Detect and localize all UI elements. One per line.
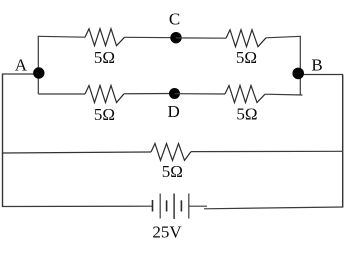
wire: A to resistor R3 bbox=[38, 93, 85, 95]
resistor R4 5ohm (middle right) bbox=[225, 86, 265, 103]
svg-text:5Ω: 5Ω bbox=[236, 48, 257, 67]
wire: R2 to top right corner bbox=[266, 36, 301, 38]
resistor R1 5ohm (top left) bbox=[85, 29, 125, 46]
wire: battery row right (long segment to right edge) bbox=[204, 207, 343, 209]
battery B1 25V bbox=[153, 194, 189, 220]
wire: node B to right edge bbox=[298, 74, 343, 76]
wire: A to resistor R1 bbox=[38, 35, 85, 38]
svg-text:A: A bbox=[15, 55, 28, 74]
wire: right edge vertical bbox=[342, 75, 344, 208]
wire: bottom resistor row right bbox=[191, 150, 343, 152]
wire: node A to left edge bbox=[3, 73, 40, 75]
wire: C to resistor R2 bbox=[176, 37, 226, 39]
wire: R4 to right bridge vertical bbox=[265, 93, 303, 96]
node B bbox=[292, 68, 304, 80]
svg-text:5Ω: 5Ω bbox=[236, 105, 257, 124]
node C bbox=[170, 32, 181, 43]
svg-text:B: B bbox=[311, 55, 322, 74]
resistor R5 5ohm (bottom branch) bbox=[151, 144, 191, 161]
wire: R3 to node D bbox=[124, 93, 175, 95]
wire: left edge vertical bbox=[2, 74, 4, 208]
svg-text:25V: 25V bbox=[152, 223, 182, 242]
wire: D to resistor R4 bbox=[175, 93, 226, 95]
resistor R2 5ohm (top right) bbox=[226, 30, 266, 47]
resistor R3 5ohm (middle left) bbox=[85, 86, 124, 103]
wire: bottom resistor row left bbox=[2, 152, 151, 153]
svg-text:C: C bbox=[169, 9, 180, 28]
node A bbox=[33, 67, 44, 78]
wire: battery row left bbox=[2, 205, 153, 207]
wire: A branch vertical (top branch to middle branch) bbox=[37, 36, 39, 94]
node D bbox=[169, 88, 180, 99]
svg-text:5Ω: 5Ω bbox=[94, 48, 115, 67]
svg-text:5Ω: 5Ω bbox=[94, 105, 115, 124]
wire: R1 to node C bbox=[125, 36, 177, 38]
wire: battery row right (short segment from battery) bbox=[189, 205, 207, 207]
svg-text:D: D bbox=[168, 102, 180, 121]
svg-text:5Ω: 5Ω bbox=[162, 162, 183, 181]
wire: right bridge vertical through node B bbox=[299, 36, 301, 95]
